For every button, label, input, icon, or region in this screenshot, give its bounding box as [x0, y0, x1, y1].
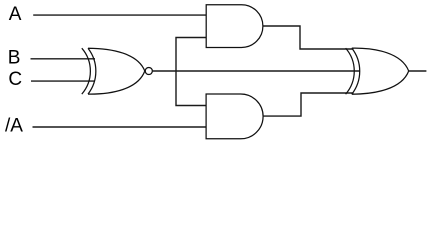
- and gate U2 top: [206, 5, 263, 48]
- wire XNOR output to XOR middle input: [153, 70, 360, 72]
- and gate U3 bottom: [206, 94, 263, 139]
- wire AND2 output to XOR bottom input: [263, 93, 353, 116]
- wire A to AND1: [33, 14, 206, 16]
- xnor gate U1: [82, 48, 153, 94]
- wire /A to AND2: [33, 126, 207, 128]
- xor gate U4: [346, 48, 409, 94]
- svg-text:C: C: [8, 69, 22, 90]
- wire B to XNOR: [31, 58, 96, 60]
- svg-text:B: B: [8, 48, 21, 69]
- wire C to XNOR: [31, 80, 95, 82]
- wire branch from XNOR output to AND1 and AND2 inputs: [176, 38, 206, 106]
- svg-text:/A: /A: [5, 116, 23, 137]
- svg-text:A: A: [9, 4, 22, 25]
- wire XOR output: [409, 70, 427, 72]
- wire AND1 output to XOR top input: [263, 26, 354, 49]
